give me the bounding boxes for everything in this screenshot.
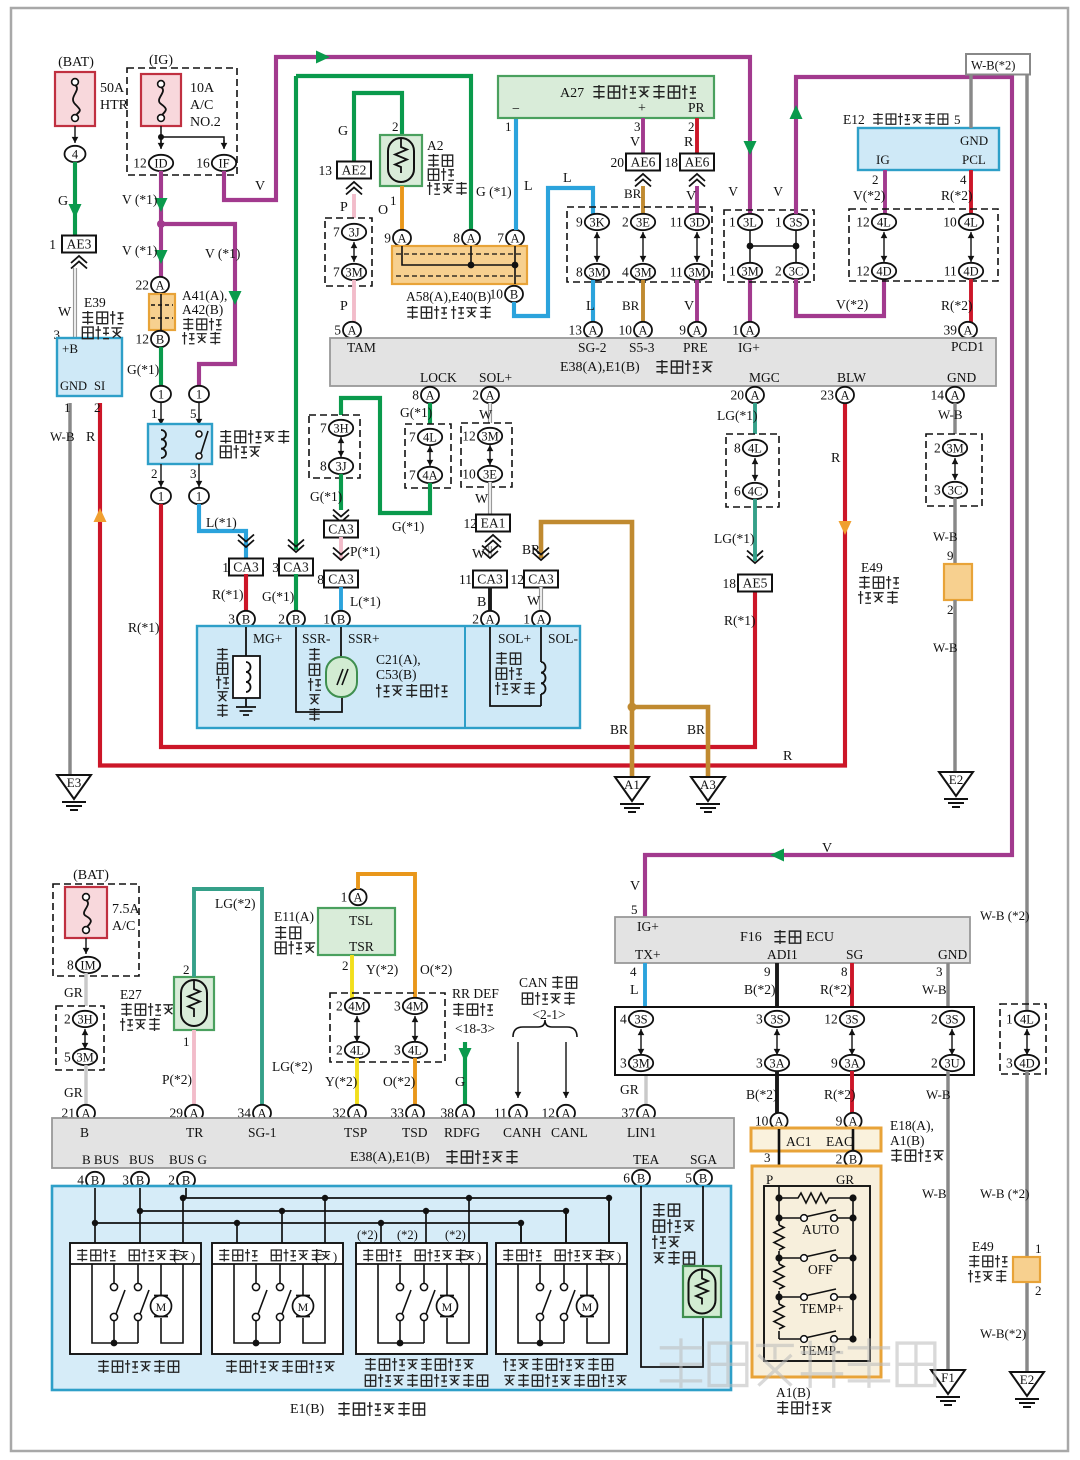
svg-text:W: W [475,492,489,507]
connector 32 A at TSP [348,1105,366,1121]
svg-text:3M: 3M [741,264,758,278]
connector row box 3S/3M 3A 3U [615,1007,974,1075]
svg-text:1: 1 [323,612,330,627]
connector 33 A at TSD [406,1105,424,1121]
svg-text:PR: PR [688,100,705,115]
svg-text:): ) [191,1250,195,1264]
svg-text:(: ( [173,1250,177,1264]
svg-text:GR: GR [64,1085,83,1100]
svg-text:AE6: AE6 [685,155,710,170]
svg-text:): ) [477,1250,481,1264]
svg-text:E3: E3 [67,775,81,790]
wire R(*1) from relay pin2 to AE5 red loop inner [161,504,755,747]
svg-text:B: B [849,1152,857,1166]
svg-text:V: V [773,184,783,199]
svg-text:M: M [156,1300,167,1314]
ground A3 [691,777,725,801]
svg-text:CANH: CANH [503,1125,542,1140]
svg-text:SG-1: SG-1 [248,1125,277,1140]
svg-text:4A: 4A [422,468,437,482]
wire V from A27 plus pin3 to AE6 [641,118,645,154]
svg-text:CAN: CAN [519,975,548,990]
svg-text:RR DEF: RR DEF [452,986,499,1001]
magnet clutch coil [217,648,227,661]
svg-text:A: A [425,388,434,402]
svg-text:2: 2 [1035,1283,1042,1298]
svg-text:L(*1): L(*1) [350,594,381,609]
svg-text:8: 8 [734,441,741,456]
connector 18 AE5 [747,556,763,563]
connector 20 AE6 [626,154,660,171]
svg-text:V(*2): V(*2) [853,188,885,203]
connector 1 B at SSR+ [332,611,350,627]
svg-text:A: A [963,323,972,337]
svg-text:3S: 3S [770,1012,783,1026]
svg-text:C53(B): C53(B) [376,667,417,682]
ground E2 upper [939,772,973,796]
connector 8 IM [76,957,100,973]
wire BR branch to A3 [632,707,708,777]
svg-text:AE2: AE2 [342,163,367,178]
svg-text:L: L [630,983,639,998]
svg-text:L: L [563,171,572,186]
svg-text:IG+: IG+ [738,340,760,355]
svg-text:2: 2 [472,388,479,403]
connector 1 AE3 [62,236,96,253]
svg-text:F1: F1 [941,1370,955,1385]
svg-text:4D: 4D [963,264,978,278]
svg-text:1: 1 [523,612,530,627]
wire O(*2) from E11 1A up over to 3 4M [358,874,415,998]
svg-text:BR: BR [610,722,628,737]
svg-text:2: 2 [872,172,879,187]
svg-text:3H: 3H [333,421,348,435]
svg-text:B BUS: B BUS [82,1152,119,1167]
svg-text:L: L [524,179,533,194]
svg-text:5: 5 [64,1050,71,1065]
wire W from SOL+ 2A amp down to 3M [488,403,492,423]
svg-text:4L: 4L [877,215,891,229]
svg-text:A1(B): A1(B) [776,1385,811,1400]
svg-text:CA3: CA3 [328,522,354,537]
in-line connector 4M/4L pairs bottom [330,993,445,1062]
svg-text:3M: 3M [588,265,605,279]
in-line connector 7 3J / 7 3M (TAM) [325,218,372,286]
svg-text:23: 23 [821,388,835,403]
svg-text:G(*1): G(*1) [400,405,432,420]
svg-text:5: 5 [954,112,961,127]
wire V from 3M to amplifier IG+ 1A [748,280,752,322]
svg-text:IM: IM [80,958,95,972]
svg-text:R: R [831,451,841,466]
svg-text:LIN1: LIN1 [627,1125,656,1140]
svg-text:B: B [477,595,486,610]
svg-text:3: 3 [756,1012,763,1027]
svg-text:8: 8 [412,388,419,403]
svg-text:R(*2): R(*2) [941,188,973,203]
svg-text:10: 10 [943,215,957,230]
svg-text:A: A [397,231,406,245]
svg-text:12: 12 [856,264,870,279]
wire W-B(*2) from 4D to E49 to ground E2 [1025,1071,1028,1372]
wire G long from top to 3 CA3 (SSR- feed) [294,76,298,550]
svg-text:+B: +B [62,341,78,356]
svg-text:3A: 3A [769,1056,784,1070]
svg-text:PCD1: PCD1 [951,339,984,354]
wire W from AE3 to E39 +B pin3 [73,268,77,338]
svg-text:C21(A),: C21(A), [376,652,421,667]
connector 2 A at SOL+ box [481,611,499,627]
svg-text:V: V [630,135,640,150]
wire to CANL with down arrow [565,1042,567,1098]
wire R from E39 SI pin2 down-right to amplifier BLW (outer red loop) [100,400,845,766]
wire L(*1) from relay pin3 to 1 CA3 [199,504,246,560]
E39 blower motor box [57,338,122,396]
junction connector A58(A) E40(B) [392,246,527,284]
svg-text:(: ( [459,1250,463,1264]
wire P(*2) from E27 pin1 to TR 29A [192,1030,196,1105]
wire L from 10B to 3K and SG-2 [514,188,593,316]
in-line connector group 4L/4D pairs [849,209,998,281]
svg-text:V (*1): V (*1) [205,246,240,261]
svg-text:R(*1): R(*1) [724,613,756,628]
svg-text:2: 2 [94,400,101,415]
compressor assembly box C21(A) C53(B) [197,626,580,728]
A/C pressure sensor A27 [498,76,714,118]
in-line connector 7 3H / 8 3J [309,415,360,478]
W-B(*2) label box top right [966,54,1030,75]
resistor horizontal top [779,1193,853,1203]
wire V(*2) from E12 IG pin2 to 4L [883,170,887,214]
svg-text:LG(*2): LG(*2) [215,896,256,911]
svg-text:MGC: MGC [749,370,780,385]
wire L(*1) from 8 CA3 to SSR+ 1B [339,587,343,611]
svg-text:A58(A),E40(B): A58(A),E40(B) [406,289,491,304]
svg-text:TR: TR [186,1125,203,1140]
svg-text:BR: BR [687,722,705,737]
svg-text:V: V [822,841,832,856]
svg-text:12: 12 [136,332,150,347]
svg-text:3J: 3J [348,225,359,239]
svg-text:ADI1: ADI1 [767,947,798,962]
svg-text:22: 22 [136,278,150,293]
svg-text:11: 11 [944,264,957,279]
wire B from 11 CA3 to SOL+ 2A [488,587,492,611]
svg-text:3U: 3U [944,1056,959,1070]
svg-text:18: 18 [723,576,737,591]
svg-text:LOCK: LOCK [420,370,457,385]
svg-text:P: P [340,200,348,215]
ground E2 bottom right [1010,1372,1044,1396]
svg-text:V: V [255,179,265,194]
svg-text:A41(A),: A41(A), [182,288,227,303]
evaporator temperature sensor [653,1203,664,1217]
svg-text:3C: 3C [789,264,804,278]
connector 13 A at SG-2 [584,322,602,338]
wire P from 3M to TAM 5A [352,280,356,322]
svg-text:4: 4 [620,1012,627,1027]
wire W-B from E12 GND pin5 up to W-B(*2) box [969,74,972,128]
wire G(*1) from 12B to relay pin1 [159,347,163,386]
wire L from 3M to SG-2 13A [591,280,595,322]
wire G to AE2 and A2 ambient sensor [354,93,402,162]
wire V from AE6 to 3D [695,186,699,214]
svg-text:1: 1 [183,1034,190,1049]
svg-text:10: 10 [490,287,504,302]
svg-text:A: A [588,323,597,337]
svg-text:9: 9 [836,1114,843,1129]
svg-text:BR: BR [522,542,540,557]
svg-text:18: 18 [665,155,679,170]
A/C ECU F16 bar [615,917,970,963]
svg-text:A: A [774,1114,783,1128]
svg-text:B(*2): B(*2) [746,1087,778,1102]
connector 10 A at S5-3 [634,322,652,338]
A/C amplifier E38(A) E1(B) upper bar [330,338,996,386]
svg-text:11: 11 [459,572,472,587]
svg-text:M: M [298,1300,309,1314]
svg-text:3M: 3M [481,429,498,443]
svg-text:SOL+: SOL+ [498,631,531,646]
svg-text:CA3: CA3 [528,572,554,587]
wire BR from 3M to S5-3 10A [641,280,645,322]
wire V(*1) from ID down to 22A with junction [159,171,163,277]
wire LG(*1) from MGC 20A to 4L [753,403,757,434]
svg-text:W-B(*2): W-B(*2) [980,1326,1026,1341]
svg-text:V: V [686,189,696,204]
TEMP+ switch [775,1293,782,1300]
svg-text:3: 3 [634,119,641,134]
svg-text:3L: 3L [743,215,757,229]
wire from AC1 to switch pin3 [779,1129,853,1186]
svg-text:A: A [840,388,849,402]
svg-text:6: 6 [623,1171,630,1186]
svg-text:E49: E49 [972,1239,994,1254]
svg-text:BUS: BUS [129,1152,154,1167]
svg-text:5: 5 [334,323,341,338]
in-line connector group 3K 3E 3D / 3M row [567,207,712,282]
svg-text:P: P [340,299,348,314]
wire GR from IM to 3H [84,973,87,1006]
in-line connector 12 3M / 10 3E [461,423,512,487]
svg-text:10A: 10A [190,81,215,96]
svg-text:M: M [582,1300,593,1314]
svg-text:4: 4 [72,147,79,161]
svg-text:PCL: PCL [962,152,986,167]
svg-text:G(*1): G(*1) [392,519,424,534]
combination switch A1(B) box [752,1166,881,1377]
wire V from 3M to PRE 9A [695,280,699,322]
svg-text:E39: E39 [84,295,106,310]
svg-text:4L: 4L [964,215,978,229]
svg-text:3: 3 [272,560,279,575]
svg-text:2: 2 [183,962,190,977]
connector 2 B below bar [177,1172,195,1188]
svg-text:3M: 3M [946,441,963,455]
svg-text:7: 7 [409,468,416,483]
svg-text:B: B [242,612,250,626]
svg-text:12: 12 [133,156,147,171]
svg-text:SGA: SGA [690,1152,717,1167]
svg-text:1: 1 [158,387,164,401]
connector 8 CA3 [333,553,349,560]
connector 13 AE2 [337,162,371,179]
wire W from 12 CA3 to SOL- 1A [539,587,543,611]
svg-text:5: 5 [685,1171,692,1186]
connector 14 A below GND [946,387,964,403]
svg-text:A: A [848,1114,857,1128]
svg-text:4L: 4L [748,441,762,455]
svg-text:3: 3 [228,612,235,627]
svg-text:4L: 4L [408,1043,422,1057]
connector 1 A above E11 [349,889,366,905]
svg-text:E38(A),E1(B): E38(A),E1(B) [350,1150,430,1165]
svg-text:CANL: CANL [551,1125,588,1140]
svg-text:W-B(*2): W-B(*2) [971,59,1015,73]
wire from IG fuse to ID and IF [161,126,224,148]
connector 1 relay coil bottom [151,488,171,504]
wire V(*1) branch to relay pin5 [161,224,235,386]
svg-text:Y(*2): Y(*2) [366,962,398,977]
wire G(*1) from 3J to CA3 [339,474,343,510]
svg-text:A1: A1 [624,777,640,792]
svg-text:1: 1 [196,489,202,503]
svg-text:8: 8 [453,231,460,246]
svg-text:A: A [466,231,475,245]
ambient temperature sensor A2 [380,135,422,186]
svg-text:(: ( [599,1250,603,1264]
connector 16 IF [212,155,236,171]
svg-text:20: 20 [611,155,625,170]
in-line connector 8 4L / 6 4C [726,434,779,507]
svg-text:(*2): (*2) [445,1228,466,1242]
svg-text:P(*1): P(*1) [350,544,380,559]
svg-text:3K: 3K [589,215,604,229]
in-line connector 2 3H / 5 3M bottom [56,1006,104,1070]
A/C amplifier E38(A) E1(B) lower bar [52,1118,734,1168]
svg-text:TEMP+: TEMP+ [800,1301,844,1316]
svg-text:7: 7 [409,430,416,445]
svg-text:50A: 50A [100,81,125,96]
orange flow arrow down on BLW R wire [839,521,852,535]
svg-text:W: W [472,547,486,562]
connector 38 A at RDFG [456,1105,474,1121]
svg-text:W: W [58,305,72,320]
svg-text:8: 8 [576,265,583,280]
connector 12 CA3 [533,553,549,560]
svg-text:CA3: CA3 [477,572,503,587]
svg-text:A: A [485,388,494,402]
bus line 2 [140,1211,566,1243]
svg-text:R: R [783,749,793,764]
svg-text:V: V [630,879,640,894]
svg-text:A: A [692,323,701,337]
svg-text:A: A [745,323,754,337]
svg-text:2: 2 [392,119,399,134]
wire G(*1) from 4A loop to 3H [341,398,430,513]
wire G horizontal top joining AE2/A2/8A [296,76,471,231]
connector 12 ID [149,155,173,171]
svg-text:2: 2 [336,1043,343,1058]
svg-text:3S: 3S [845,1012,858,1026]
svg-text:E49: E49 [861,560,883,575]
wire W-B(*2) long right side down to 4L connector [1025,74,1028,1012]
svg-text:3C: 3C [948,483,963,497]
bus line 1 [186,1198,609,1243]
wire L from TX+ pin4 to 4 3S [643,963,647,1007]
orange flow arrow up on R wire [94,508,107,522]
svg-text:B: B [699,1171,707,1185]
connector 4 below BAT fuse [65,146,86,162]
connector 39 A at PCD1 [959,322,977,338]
svg-text:A42(B): A42(B) [182,302,223,317]
svg-text:1: 1 [64,400,71,415]
connector 3 CA3 (SSR-) [288,545,304,552]
svg-text:GND: GND [947,370,976,385]
connector 1 CA3 [238,540,254,547]
connector 21 A at B [77,1105,95,1121]
connector 23 A below BLW [836,387,854,403]
svg-text:M: M [442,1300,453,1314]
svg-text:3: 3 [394,1043,401,1058]
svg-text:2: 2 [342,958,349,973]
connector 9 A at PRE [688,322,706,338]
svg-text:2: 2 [151,466,158,481]
svg-text:CA3: CA3 [328,572,354,587]
svg-text:E27: E27 [120,987,142,1002]
svg-text:E11(A): E11(A) [274,909,314,924]
svg-text:TAM: TAM [347,340,376,355]
A/C compressor relay box [148,424,212,464]
connector 1 A at SOL- [532,611,550,627]
svg-text:Y(*2): Y(*2) [325,1074,357,1089]
svg-text:1: 1 [729,264,736,279]
svg-text:SSR+: SSR+ [348,631,380,646]
svg-text:A1(B): A1(B) [890,1133,925,1148]
svg-text:MG+: MG+ [253,631,282,646]
svg-text:A: A [347,323,356,337]
svg-text:(IG): (IG) [149,53,173,68]
wire W from 3E to EA1 [488,482,492,516]
svg-text:7: 7 [333,265,340,280]
svg-text:W-B: W-B [933,529,958,544]
svg-text:E12: E12 [843,112,865,127]
svg-text:E1(B): E1(B) [290,1402,325,1417]
wire W-B from E39 GND pin1 to ground E3 [68,403,71,775]
svg-text:1: 1 [732,323,739,338]
svg-text:5: 5 [190,406,197,421]
svg-text:B: B [510,287,518,301]
in-line connector 7 4L / 7 4A [405,424,451,488]
svg-text:A2: A2 [427,138,444,153]
svg-text:W-B: W-B [938,407,963,422]
svg-text:W-B (*2): W-B (*2) [980,1186,1029,1201]
svg-text:GND: GND [960,133,988,148]
svg-text:−: − [512,102,520,117]
svg-text:<18-3>: <18-3> [455,1021,495,1036]
svg-text:4: 4 [630,964,637,979]
wire R(*2) from 3A to EAC 9A [850,1071,854,1115]
svg-text:B: B [156,332,164,346]
blower assembly E1(B) box [52,1186,731,1390]
svg-text:F16: F16 [740,930,762,945]
wire W-B from 3C to E49 [953,498,956,564]
svg-text:E2: E2 [949,772,963,787]
svg-text:BR: BR [624,186,642,201]
svg-text:7: 7 [320,421,327,436]
svg-text:10: 10 [462,467,476,482]
connector 34 A at SG-1 [253,1105,271,1121]
